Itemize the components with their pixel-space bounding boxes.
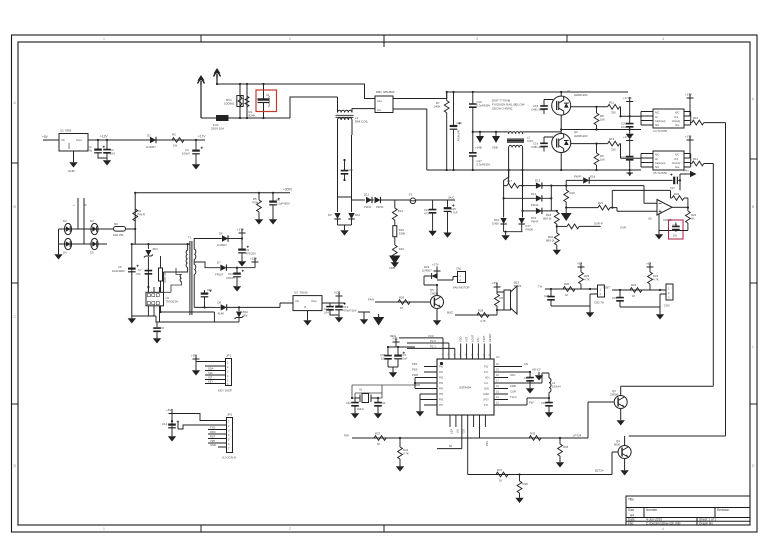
wire controller gnd rail (132, 311, 239, 322)
net arrow L (AC live input) (200, 85, 202, 118)
right side of mcu: cap and ground (522, 367, 534, 394)
diode D11 sense series (364, 193, 374, 210)
resistor R36 to gnd (556, 438, 569, 468)
svg-text:104: 104 (324, 311, 329, 315)
svg-text:R26: R26 (399, 296, 405, 300)
svg-text:SDA: SDA (208, 367, 214, 371)
svg-text:2: 2 (289, 527, 291, 531)
svg-text:470/25: 470/25 (226, 276, 235, 280)
wire DC+ from bridge (400, 92, 447, 99)
svg-text:470uF/16V: 470uF/16V (343, 309, 357, 313)
svg-text:10K: 10K (600, 118, 605, 122)
zone numbers top (103, 37, 664, 41)
transistor Q5 fan (430, 285, 444, 326)
resistor R38 to gnd (515, 475, 528, 504)
svg-text:R12: R12 (609, 100, 615, 104)
svg-text:D9: D9 (328, 213, 332, 217)
wire top power rail (447, 91, 628, 93)
svg-text:+17V: +17V (237, 228, 244, 232)
svg-text:C29: C29 (612, 296, 618, 300)
svg-text:4.7K: 4.7K (653, 278, 659, 282)
svg-text:C8050: C8050 (430, 292, 439, 296)
svg-text:R36: R36 (563, 445, 569, 449)
electrolytic cap C9 (238, 239, 256, 267)
svg-text:R32: R32 (631, 283, 637, 287)
svg-text:R37: R37 (497, 468, 503, 472)
resistor R13 in gate2 wire (608, 137, 620, 151)
svg-text:GBU806: GBU806 (383, 90, 395, 94)
svg-text:TH: TH (538, 285, 542, 289)
svg-text:N/C: N/C (675, 154, 680, 157)
svg-text:N/C: N/C (675, 112, 680, 115)
svg-text:104: 104 (110, 152, 115, 156)
power tap JP1 (191, 354, 200, 362)
svg-text:DB1: DB1 (376, 90, 382, 94)
svg-text:+17VB: +17VB (623, 96, 632, 100)
diode D13 row (523, 179, 645, 189)
svg-text:1K: 1K (377, 442, 381, 446)
svg-text:10D561: 10D561 (224, 102, 235, 106)
svg-text:CN1: CN1 (456, 267, 462, 271)
svg-text:INT: INT (455, 429, 459, 434)
wire CN2 pin2 (590, 294, 598, 310)
svg-text:R13: R13 (609, 137, 615, 141)
zone tick right 1 (750, 158, 757, 160)
wire sense row y200 (338, 135, 456, 200)
wire opamp output (672, 206, 688, 208)
svg-text:2: 2 (289, 37, 291, 41)
svg-text:TXD: TXD (210, 426, 215, 430)
svg-text:D7: D7 (217, 261, 221, 265)
diode D17 down right (519, 218, 534, 232)
svg-text:D14: D14 (531, 192, 537, 196)
electrolytic cap C14 (162, 421, 179, 428)
svg-text:330K: 330K (399, 232, 406, 236)
zone tick left 2 (12, 282, 19, 284)
row SUR-P with fuse (557, 222, 603, 229)
svg-text:F1: F1 (409, 193, 413, 197)
diode D18 top row (566, 175, 672, 186)
svg-text:+14B: +14B (475, 146, 482, 150)
svg-text:P94: P94 (439, 388, 444, 390)
cap C26 in red box (672, 223, 680, 238)
wire opamp out arrow net (680, 169, 697, 191)
svg-text:473: 473 (424, 212, 429, 216)
svg-text:1K: 1K (632, 294, 636, 298)
power tap JP2 (166, 408, 176, 414)
svg-text:4.7K: 4.7K (584, 278, 590, 282)
cap C35 under L3 (527, 398, 553, 418)
svg-text:P91: P91 (439, 372, 444, 374)
bridge diode D4 (63, 238, 72, 254)
svg-text:D8: D8 (218, 301, 222, 305)
svg-text:U6: U6 (648, 217, 652, 221)
title block (626, 496, 750, 525)
electrolytic cap C10 (226, 268, 244, 292)
svg-text:R17: R17 (507, 179, 513, 183)
svg-text:4.7uF: 4.7uF (451, 211, 458, 215)
svg-text:10uF: 10uF (401, 357, 408, 361)
wire TH1 row (545, 288, 598, 290)
wire bridge bottom row (59, 243, 108, 245)
svg-text:P10: P10 (484, 366, 489, 368)
zone tick top center (383, 35, 385, 47)
svg-text:TH-C: TH-C (510, 395, 517, 399)
cap C8 under controller (153, 322, 164, 344)
ground right 2 (530, 372, 543, 381)
svg-text:PW: PW (529, 401, 534, 405)
bridge diode D2 (63, 219, 72, 235)
svg-text:+12V: +12V (100, 135, 108, 139)
svg-text:C11: C11 (207, 288, 212, 292)
net label +5V (42, 135, 59, 140)
resistor R2 (166, 133, 205, 148)
svg-text:D6: D6 (219, 232, 223, 236)
svg-text:1: 1 (103, 527, 105, 531)
electrolytic cap C27 horizontal (670, 173, 680, 190)
wire AC top rail (217, 84, 375, 99)
svg-text:3: 3 (476, 37, 478, 41)
resistor R12 in gate1 wire (608, 100, 620, 114)
svg-text:VCC: VCC (392, 337, 398, 341)
svg-text:JP1: JP1 (226, 354, 232, 358)
resistor R15 boxed (393, 226, 406, 245)
diode D8 feedback (218, 301, 294, 316)
svg-text:T1: T1 (188, 236, 192, 240)
igbt Q2 (552, 130, 588, 170)
svg-text:C34: C34 (524, 376, 529, 380)
mcu top pin wires (399, 338, 490, 359)
power tap TH2 (646, 262, 654, 273)
power tap VCC (334, 291, 343, 304)
mcu bottom pin wires (437, 415, 485, 475)
svg-text:SUR: SUR (620, 226, 626, 230)
wire AC bottom rail (201, 97, 338, 118)
svg-text:+17V: +17V (432, 263, 439, 267)
svg-text:C14: C14 (162, 422, 168, 426)
svg-text:+5V: +5V (42, 135, 49, 139)
power tap +17V over C22 (623, 135, 633, 156)
svg-text:D10: D10 (355, 213, 361, 217)
svg-text:5uF275V: 5uF275V (267, 96, 271, 107)
svg-text:FAN MOTOR: FAN MOTOR (453, 286, 470, 290)
svg-text:INT: INT (208, 376, 213, 380)
svg-text:+5V: +5V (492, 281, 497, 285)
svg-text:1: 1 (103, 37, 105, 41)
zone numbers bottom (103, 527, 664, 531)
connector JP2 (222, 413, 236, 460)
net stub L to bridge (72, 198, 79, 229)
svg-text:470K: 470K (252, 201, 259, 205)
smps controller U2 (146, 287, 178, 311)
zener ZD1 vertical (144, 244, 158, 268)
svg-text:D11: D11 (364, 193, 369, 197)
svg-text:P2.0: P2.0 (430, 339, 436, 343)
svg-text:10Ω 2W: 10Ω 2W (113, 233, 124, 237)
svg-text:VAC: VAC (510, 373, 516, 377)
svg-text:D1: D1 (147, 134, 151, 138)
wire opamp inputs (566, 186, 657, 212)
svg-text:1K: 1K (565, 293, 569, 297)
svg-text:N/C: N/C (655, 166, 660, 169)
svg-text:C32: C32 (346, 401, 351, 405)
crystal caps C32 (346, 398, 359, 419)
mcu left labels (412, 362, 418, 372)
svg-text:Drawn By:: Drawn By: (699, 521, 714, 525)
wire gate1 to driver (571, 107, 641, 117)
resistor R16 lower (391, 245, 405, 268)
svg-text:R38: R38 (523, 482, 529, 486)
resistor R20 to ground (546, 226, 561, 255)
svg-text:Vout: Vout (76, 138, 82, 142)
transformer T1 core (188, 236, 192, 316)
resistor R1 across line (245, 84, 256, 118)
svg-text:PW0: PW0 (412, 373, 419, 377)
svg-text:VDB: VDB (389, 266, 395, 270)
svg-text:GND1: GND1 (483, 394, 490, 396)
svg-text:File:: File: (628, 521, 634, 525)
svg-text:+5V: +5V (191, 354, 196, 358)
svg-text:8050: 8050 (614, 443, 621, 447)
ground bridge negative (54, 252, 62, 260)
svg-text:4MHz: 4MHz (357, 407, 364, 411)
svg-text:RXD: RXD (210, 430, 216, 434)
svg-text:1K: 1K (400, 306, 404, 310)
electrolytic cap C25 (443, 200, 458, 238)
wire secondary mid junction (193, 259, 195, 264)
diode D14 row (504, 186, 552, 207)
svg-text:250V 10A: 250V 10A (211, 127, 224, 131)
svg-text:SCL: SCL (461, 429, 465, 435)
cap C29 (612, 290, 660, 307)
zone tick top left (200, 35, 202, 42)
svg-text:PW-R: PW-R (531, 219, 538, 223)
connector JP1 (218, 354, 232, 393)
wire U3 gnd (307, 311, 309, 318)
electrolytic cap C4 (182, 140, 203, 170)
svg-text:VPP: VPP (210, 439, 215, 443)
diode D15 row (523, 198, 557, 223)
capacitor C1 (X-cap) (258, 84, 272, 118)
svg-text:FAN: FAN (368, 298, 374, 302)
driver U4 pins left (641, 112, 653, 126)
svg-text:P90: P90 (439, 366, 444, 368)
wire DC- from bridge (400, 109, 427, 170)
transistor Q4 (614, 436, 631, 476)
diode D10 down (348, 200, 360, 225)
diode D12 sense series (375, 197, 384, 209)
resistor R32 series (630, 283, 642, 298)
svg-text:103: 103 (673, 234, 678, 238)
resistor R5 to gnd (252, 193, 263, 225)
net arrow down VDB (389, 256, 401, 271)
svg-text:ADB: ADB (484, 387, 489, 390)
svg-text:240K: 240K (434, 105, 441, 109)
net stub N to bridge (84, 198, 88, 244)
resistor R18 vertical (543, 211, 559, 227)
svg-text:XOUT: XOUT (470, 334, 474, 342)
svg-text:C8: C8 (160, 326, 164, 330)
diode D6 output 17V (217, 232, 242, 248)
svg-text:5uF400V: 5uF400V (457, 130, 461, 141)
ground TH2 (656, 312, 664, 320)
svg-text:PW-R: PW-R (574, 175, 581, 179)
svg-text:BZT24: BZT24 (595, 469, 604, 473)
svg-text:P92: P92 (439, 377, 444, 379)
ground JP1 (192, 362, 200, 376)
svg-text:ND1: ND1 (485, 377, 490, 379)
wire regulator output (88, 139, 205, 141)
svg-text:P96: P96 (439, 399, 444, 401)
svg-text:SUR-P: SUR-P (594, 222, 603, 226)
resistor R7 bleeder (434, 92, 449, 170)
svg-text:C27: C27 (670, 186, 675, 190)
mcu right pin numbers (496, 363, 499, 405)
svg-text:PW-R: PW-R (376, 205, 383, 209)
transistor Q3 (610, 386, 627, 425)
net labels JP1 (208, 367, 214, 384)
bridge diode D3 (90, 219, 98, 235)
wire coil feed row (473, 132, 509, 134)
mcu right net labels (510, 362, 541, 405)
connector CN2 thermistor (594, 285, 605, 305)
electrolytic cap C11 horizontal (201, 288, 213, 307)
svg-text:TEST: TEST (482, 335, 486, 342)
svg-text:GND: GND (67, 143, 71, 149)
svg-text:PD0: PD0 (412, 368, 418, 372)
net arrow N (AC neutral input) (216, 78, 218, 84)
svg-text:+17V: +17V (685, 135, 692, 139)
svg-text:+12V: +12V (250, 257, 257, 261)
svg-text:+17VB: +17VB (623, 135, 632, 139)
crystal X1 (355, 388, 378, 412)
svg-text:470/25V: 470/25V (246, 252, 257, 256)
ground sense diodes (338, 225, 352, 236)
svg-text:R27: R27 (500, 296, 506, 300)
svg-text:D18: D18 (590, 175, 596, 179)
svg-text:U3: U3 (294, 291, 298, 295)
svg-text:D13: D13 (535, 179, 541, 183)
fuse FU1 (211, 116, 231, 131)
svg-text:N/C: N/C (655, 112, 660, 115)
svg-text:10uF400V: 10uF400V (112, 269, 125, 273)
wire +300V top rail (135, 192, 290, 194)
diode D9 down (328, 197, 352, 225)
svg-text:LPT24: LPT24 (573, 434, 582, 438)
wire driver1 to Q4 collector bus (629, 123, 726, 436)
svg-text:AC-: AC- (377, 108, 382, 112)
zone letters left (14, 101, 17, 468)
wire pin13 to cap (526, 401, 528, 405)
cap C28 (544, 289, 590, 306)
svg-text:1W: 1W (173, 144, 178, 148)
svg-text:CN3: CN3 (664, 304, 670, 308)
power tap +17V (237, 228, 246, 239)
buzzer BZ1 (504, 281, 522, 315)
svg-text:U7: U7 (496, 355, 500, 359)
resistor R33 (374, 432, 386, 447)
electrolytic cap C13 (335, 303, 357, 323)
wire U1 gnd (73, 151, 75, 160)
svg-text:VA-C: VA-C (448, 196, 454, 200)
ground opamp (655, 214, 688, 240)
svg-text:4.7K: 4.7K (403, 452, 409, 456)
resistor R28 buzzer drive (477, 309, 489, 324)
svg-text:1K: 1K (691, 217, 695, 221)
wire primary top to +rail (187, 244, 189, 250)
svg-text:N/C: N/C (655, 154, 660, 157)
svg-text:104: 104 (381, 357, 386, 361)
svg-text:330: 330 (611, 111, 616, 115)
svg-text:Vout: Vout (311, 299, 317, 303)
wire coil-left sense vertical (504, 170, 509, 218)
svg-text:ZD1: ZD1 (153, 247, 159, 251)
cap C12 (324, 303, 339, 315)
bridge rectifier DB1 box (375, 90, 400, 113)
transformer T1 aux winding (180, 275, 182, 282)
electrolytic cap C5 (269, 193, 290, 225)
resistor R26 base (398, 296, 410, 311)
wire coil-right sense vertical (522, 170, 524, 218)
svg-text:CN: CN (524, 362, 528, 366)
wires JP2 pins (172, 414, 227, 448)
resistor R8 gate1 (594, 107, 605, 130)
svg-text:VCC: VCC (334, 291, 341, 295)
svg-text:0.3uF630V: 0.3uF630V (477, 104, 491, 108)
cap C22 driver2 (621, 155, 634, 170)
igbt Q1 (552, 89, 588, 134)
wires JP1 pins (196, 362, 226, 384)
svg-text:Number: Number (646, 508, 658, 512)
electrolytic cap C31 (388, 347, 408, 367)
inductor L3 right (535, 373, 561, 398)
zone tick top right (566, 35, 568, 42)
mcu U7 box (437, 355, 500, 415)
svg-text:2.2uF450V: 2.2uF450V (276, 202, 290, 206)
fusible resistor R3 (107, 222, 135, 237)
svg-text:C481-300: C481-300 (531, 145, 544, 149)
svg-text:PW-R: PW-R (531, 203, 538, 207)
svg-text:PAN: PAN (683, 169, 689, 173)
svg-text:EMI COIL: EMI COIL (355, 120, 369, 124)
wire secondary tap to D7 (194, 262, 220, 268)
svg-text:R28: R28 (478, 309, 484, 313)
svg-text:P2.1: P2.1 (430, 344, 436, 348)
regulator U3 78L05 box (293, 291, 322, 311)
svg-text:R11: R11 (693, 157, 698, 161)
resistor R21 input (598, 201, 610, 210)
text block power module note (492, 99, 525, 111)
svg-text:Ca(input): Ca(input) (655, 162, 665, 165)
wire driver2 to Q3 collector bus (621, 164, 714, 387)
svg-text:100UH: 100UH (552, 385, 561, 389)
svg-text:N/C: N/C (655, 124, 660, 127)
induction coil L2 (507, 132, 561, 184)
zone tick bottom center (383, 525, 385, 532)
svg-text:+5V: +5V (166, 408, 171, 412)
svg-text:VDB: VDB (492, 146, 498, 150)
svg-text:JP2: JP2 (227, 413, 233, 417)
svg-text:+17V: +17V (198, 135, 206, 139)
svg-text:R10: R10 (693, 116, 699, 120)
capacitor C3 (103, 140, 115, 166)
svg-text:+5V: +5V (646, 262, 651, 266)
svg-text:4: 4 (662, 37, 664, 41)
connector CN3 sensor (664, 284, 673, 308)
svg-text:470u: 470u (86, 149, 93, 153)
svg-text:P95: P95 (439, 394, 444, 396)
svg-text:KEY DISP: KEY DISP (218, 389, 232, 393)
